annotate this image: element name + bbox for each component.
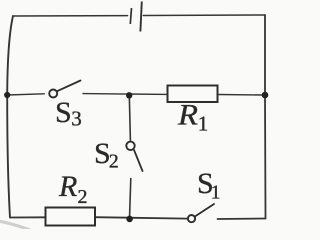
switch S1 circle bbox=[188, 215, 195, 222]
switch S3 lever bbox=[57, 81, 81, 92]
wire S2 branch upper bbox=[129, 96, 130, 141]
switch S2 circle bbox=[126, 142, 134, 150]
switch S3 circle bbox=[49, 90, 57, 98]
svg-text:1: 1 bbox=[211, 182, 221, 204]
switch S1 lever bbox=[195, 204, 214, 217]
wire left side bbox=[7, 16, 13, 218]
svg-text:2: 2 bbox=[109, 151, 119, 173]
svg-text:2: 2 bbox=[78, 186, 88, 208]
svg-text:R: R bbox=[58, 170, 77, 203]
node right middle junction bbox=[262, 92, 269, 99]
wire right side bbox=[264, 15, 267, 219]
wire S2 branch lower bbox=[130, 179, 131, 219]
scan smudge bottom-left bbox=[0, 221, 30, 230]
node middle junction (S2 top) bbox=[126, 92, 132, 98]
node left middle junction bbox=[4, 92, 10, 98]
battery cell long (positive) plate bbox=[140, 2, 141, 32]
wire R1 to right node bbox=[218, 94, 266, 97]
wire R2 to S1 bbox=[95, 217, 188, 218]
wire top right segment bbox=[143, 14, 265, 17]
svg-text:S: S bbox=[55, 96, 72, 129]
battery cell short (negative) plate bbox=[130, 8, 131, 24]
svg-text:1: 1 bbox=[198, 112, 209, 136]
resistor R1 box bbox=[168, 86, 218, 103]
svg-text:R: R bbox=[177, 98, 198, 131]
node bottom junction (S2 bottom) bbox=[126, 216, 133, 223]
switch S2 lever bbox=[134, 149, 143, 171]
svg-text:3: 3 bbox=[71, 107, 82, 131]
resistor R2 box bbox=[46, 208, 96, 226]
wire S3 to R1 bbox=[83, 93, 168, 96]
wire S1 to bottom right corner bbox=[218, 218, 266, 221]
wire top left segment bbox=[13, 15, 128, 17]
wire middle left to S3 bbox=[7, 94, 44, 95]
wire bottom left to R2 bbox=[10, 216, 46, 218]
